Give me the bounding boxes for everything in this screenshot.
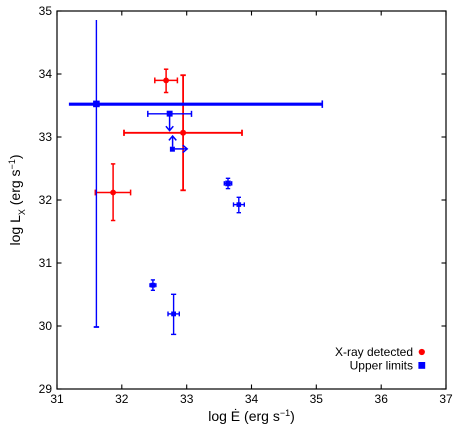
svg-text:32: 32: [39, 193, 53, 207]
svg-text:Upper limits: Upper limits: [350, 359, 413, 373]
blue point B1 error bars: [69, 20, 322, 327]
blue marker B4: [225, 181, 231, 187]
svg-text:36: 36: [375, 392, 389, 406]
blue marker B5: [237, 202, 242, 207]
svg-text:37: 37: [439, 392, 453, 406]
red point R3 error bars: [95, 164, 130, 221]
y tick labels: [39, 4, 53, 396]
legend entry 1: text + red circle: [335, 345, 425, 359]
svg-text:35: 35: [39, 4, 53, 18]
legend entry 2: text + blue square: [350, 359, 426, 373]
svg-text:33: 33: [180, 392, 194, 406]
red point R2 error bars: [124, 75, 242, 190]
svg-text:31: 31: [50, 392, 64, 406]
blue point B7 error bars: [168, 294, 179, 334]
blue marker B7: [171, 312, 176, 317]
red marker R3: [110, 190, 116, 196]
blue data series: [69, 20, 322, 334]
svg-text:34: 34: [245, 392, 259, 406]
svg-text:29: 29: [39, 382, 53, 396]
red marker R2: [180, 130, 186, 136]
red data series: [95, 69, 242, 220]
red markers: [110, 78, 186, 196]
svg-text:32: 32: [115, 392, 129, 406]
blue marker B2: [167, 111, 173, 117]
x-axis major ticks bottom: [57, 385, 446, 390]
red marker R1: [163, 78, 169, 84]
svg-text:33: 33: [39, 130, 53, 144]
blue point B6 error bars: [150, 280, 156, 290]
y-axis major ticks right: [442, 11, 447, 389]
blue point B3 up arrow + right arrow: [169, 136, 187, 153]
blue point B2 error bars + down arrow: [148, 111, 192, 131]
blue marker B1: [93, 101, 100, 108]
red point R1 error bars: [155, 69, 178, 92]
x tick labels: [50, 392, 453, 406]
svg-text:35: 35: [310, 392, 324, 406]
blue marker B6: [151, 283, 156, 288]
y-axis major ticks left: [57, 11, 62, 389]
x-axis major ticks top: [57, 11, 446, 16]
svg-text:30: 30: [39, 319, 53, 333]
svg-text:X-ray detected: X-ray detected: [335, 345, 413, 359]
axes frame: [57, 11, 446, 389]
blue marker B3: [170, 147, 175, 152]
blue point B4 error bars: [224, 178, 231, 188]
svg-text:34: 34: [39, 67, 53, 81]
blue markers: [93, 101, 241, 317]
svg-text:31: 31: [39, 256, 53, 270]
blue point B5 error bars: [234, 197, 245, 212]
